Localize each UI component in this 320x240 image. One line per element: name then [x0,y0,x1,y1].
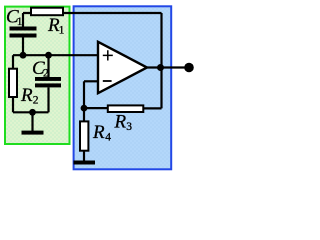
node: output junction [157,64,164,71]
wire: C1 bottom stem [22,38,24,56]
wire: C2 top stem [47,55,49,77]
wire: feedback vertical down right side [160,13,162,108]
capacitor C2 [35,77,61,87]
wire: top feedback run from C1 to right side [23,12,162,14]
wire: R3 left lead from node [84,107,107,109]
wire: op-amp minus input horizontal [84,80,98,82]
node: C1 junction on plus wire [20,52,27,59]
ground (R4) [74,161,96,165]
wire: R4 bottom lead [83,152,85,162]
resistor R4 [80,121,88,150]
resistor R1 [31,8,63,16]
wire: C1 top riser [22,13,24,27]
node: R3/R4 minus-input junction [81,105,88,112]
wire: R3 right lead [144,107,162,109]
resistor R3 [108,105,144,112]
wire: ground stem of input network [31,112,33,131]
output terminal [184,63,194,73]
wire: minus input vertical to R3/R4 node [83,81,85,108]
op-amp U1 [98,42,147,93]
wire: node wire to op-amp plus input [13,54,98,56]
node: C2 junction on plus wire [45,52,52,59]
green input-network box [5,7,70,144]
capacitor C1 [10,27,37,38]
blue amplifier box [74,6,172,169]
resistor R2 [9,69,17,97]
wire: R2 top lead [12,55,14,68]
wire: op-amp output [147,66,189,68]
ground (input network) [22,131,44,135]
node: ground junction on bottom wire [29,109,36,116]
wire: bottom node wire R2 to C2 [13,111,49,113]
wire: R4 top lead [83,108,85,121]
wire: R2 bottom lead [12,98,14,112]
wire: C2 bottom stem [47,87,49,112]
